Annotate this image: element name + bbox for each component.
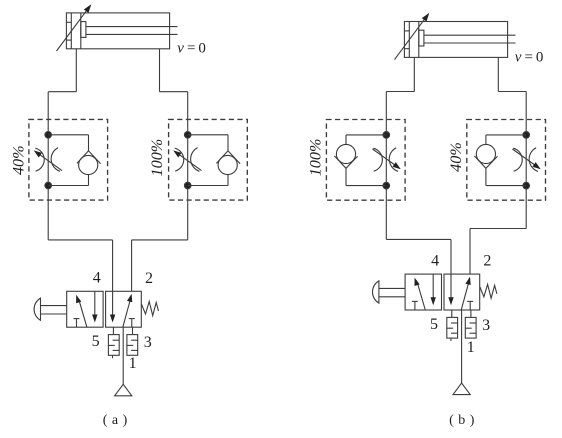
pressure source triangle (a) [115, 384, 132, 396]
wire: bottom jog to valve port 4 (a) [48, 239, 112, 241]
check valve of FCV-B2: seat [474, 156, 497, 168]
cylinder CYL-B rod block [419, 30, 424, 46]
valve V-B: left position square [405, 274, 441, 310]
wire: down into valve port 2 (a) [131, 240, 133, 291]
check valve of FCV-B1: inlet stub [345, 135, 347, 145]
check valve of FCV-A1: inlet stub [88, 135, 90, 151]
wire: branch top of FCV-B1 [346, 134, 386, 136]
valve V-B: right position square [444, 274, 480, 310]
check valve of FCV-A2: outlet stub [227, 175, 229, 186]
valve V-B: push-button stem upper [379, 287, 405, 289]
wire: branch top of FCV-A1 [48, 134, 88, 136]
wire: branch top of FCV-A2 [188, 134, 228, 136]
svg-text:5: 5 [430, 316, 438, 333]
valve V-B left square: blocked port T [412, 300, 418, 302]
throttle FCV-A2: adjustment arrow [178, 154, 202, 171]
valve V-B: return spring [480, 284, 497, 298]
flow control valve FCV-A2 dashed enclosure [169, 119, 248, 200]
valve V-A left square: diagonal flow arrow [79, 301, 87, 327]
node: junction dot bottom of FCV-A1 [45, 182, 52, 189]
node: junction dot top of FCV-A1 [45, 132, 52, 139]
svg-text:v = 0: v = 0 [177, 41, 206, 57]
valve V-A left square: blocked port T [74, 318, 80, 320]
svg-text:2: 2 [483, 253, 491, 270]
throttle FCV-B1: right arc [389, 148, 398, 172]
cylinder CYL-B cushion sleeve line [408, 22, 410, 58]
check valve of FCV-B2: ball [476, 144, 495, 163]
throttle FCV-A2: right arc [191, 148, 200, 172]
wire: cylinder B right port down [497, 57, 499, 91]
valve V-A: left position square [67, 291, 103, 327]
wire: supply line port 1 (b) [461, 310, 463, 383]
cylinder CYL-B body [404, 22, 507, 58]
flow control valve FCV-A1 dashed enclosure [29, 119, 108, 200]
wire: main line through 40% controller (b) [525, 92, 527, 229]
cylinder CYL-A adjustable-cushion arrow [57, 10, 88, 51]
node: junction dot bottom of FCV-A2 [184, 182, 191, 189]
valve V-A: silencer body at port 5 [108, 335, 119, 356]
valve V-A: return spring [141, 302, 158, 316]
svg-text:100%: 100% [148, 139, 166, 177]
wire: bottom jog to valve port 4 (b) [386, 238, 451, 240]
cylinder CYL-B cushion tick upper [404, 30, 409, 32]
throttle FCV-B2: left arc [513, 148, 522, 171]
valve V-B right square: blocked port T (port3) [467, 300, 473, 302]
wire: main line through 100% controller (a) [187, 92, 189, 240]
valve V-B: silencer body at port 3 [465, 317, 476, 338]
cylinder CYL-A cushion tick lower [66, 39, 71, 41]
valve V-B: silencer body at port 5 [447, 317, 458, 338]
wire: branch bottom of FCV-B1 [346, 185, 386, 187]
wire: cylinder A right port down [159, 49, 161, 92]
node: junction dot top of FCV-A2 [184, 132, 191, 139]
valve V-A: push-button stem upper [41, 305, 67, 307]
check valve of FCV-B2: outlet stub [485, 168, 487, 185]
svg-text:5: 5 [92, 333, 100, 350]
node: junction dot top of FCV-B2 [523, 132, 530, 139]
wire: cylinder A left jog [48, 91, 76, 93]
valve V-A: push-button stem lower [41, 313, 67, 315]
check valve of FCV-A1: outlet stub [88, 175, 90, 186]
valve V-A right square: blocked port T (port3) [129, 318, 135, 320]
check valve of FCV-A2: inlet stub [227, 135, 229, 151]
svg-text:1: 1 [467, 339, 475, 356]
check valve of FCV-A1: seat [77, 151, 101, 164]
valve V-A right square: diagonal flow arrow (port1 to port2) [123, 301, 130, 328]
throttle FCV-B1: left arc [373, 148, 382, 171]
svg-text:( a ): ( a ) [103, 413, 128, 428]
valve V-A: silencer baffle lines at port 5 [113, 339, 120, 341]
node: junction dot top of FCV-B1 [383, 132, 390, 139]
valve V-A: silencer drain stub at port 5 [112, 355, 114, 358]
valve V-A: silencer baffle lines at port 3 [131, 339, 138, 341]
check valve of FCV-B1: ball [336, 144, 355, 163]
cylinder CYL-B piston [418, 22, 420, 58]
cylinder CYL-A rod block [81, 22, 86, 38]
wire: cylinder B left jog [386, 91, 414, 93]
check valve of FCV-A2: ball [218, 155, 237, 174]
flow control valve FCV-B2 dashed enclosure [467, 120, 546, 201]
valve V-A: push-button actuator head [34, 298, 40, 320]
wire: cylinder B left port down [413, 57, 415, 91]
valve V-A right square: vertical flow arrow (port4 to port5) [112, 291, 114, 317]
svg-text:3: 3 [482, 317, 490, 334]
svg-text:3: 3 [144, 334, 152, 351]
wire: supply line port 1 (a) [122, 327, 124, 384]
cylinder CYL-A cushion sleeve line [70, 13, 72, 49]
wire: branch bottom of FCV-B2 [486, 185, 526, 187]
check valve of FCV-B2: inlet stub [485, 135, 487, 145]
svg-text:40%: 40% [447, 142, 465, 172]
cylinder CYL-A body [66, 13, 169, 49]
wire: main line through 40% controller (a) [47, 92, 49, 240]
valve V-B: push-button actuator head [372, 281, 378, 303]
wire: down into valve port 4 (a) [112, 240, 114, 291]
cylinder CYL-A piston rod lower line [86, 33, 178, 35]
valve V-A: silencer stem at port 5 [112, 327, 114, 334]
node: junction dot bottom of FCV-B1 [383, 182, 390, 189]
wire: branch bottom of FCV-A2 [188, 185, 228, 187]
check valve of FCV-A1: ball [79, 155, 98, 174]
valve V-A: silencer body at port 3 [127, 335, 138, 356]
wire: cylinder B right jog [498, 91, 526, 93]
wire: down into valve port 2 (b) [469, 229, 471, 275]
throttle FCV-A1: left arc [35, 148, 44, 171]
svg-text:100%: 100% [306, 139, 324, 177]
wire: branch bottom of FCV-A1 [48, 185, 88, 187]
check valve of FCV-A2: seat [216, 151, 240, 164]
check valve of FCV-B1: outlet stub [345, 168, 347, 185]
valve V-B: silencer stem at port 5 [451, 310, 453, 317]
wire: down into valve port 4 (b) [450, 239, 452, 274]
valve V-B: silencer drain stub at port 5 [450, 338, 452, 341]
wire: cylinder A left port down [75, 49, 77, 92]
cylinder CYL-B cushion tick lower [404, 48, 409, 50]
throttle FCV-B1: adjustment arrow [373, 149, 397, 166]
svg-text:2: 2 [145, 270, 153, 287]
valve V-B right square: diagonal flow arrow (port1 to port2) [461, 283, 468, 310]
valve V-B: silencer stem at port 3 [470, 310, 472, 317]
cylinder CYL-A piston [80, 13, 82, 49]
cylinder CYL-A piston rod upper line [86, 26, 178, 28]
cylinder CYL-A cushion tick upper [66, 21, 71, 23]
throttle FCV-A2: left arc [175, 148, 184, 171]
pressure source triangle (b) [453, 383, 470, 395]
wire: main line through 100% controller (b) [385, 92, 387, 240]
svg-text:( b ): ( b ) [449, 413, 475, 428]
valve V-A left square: vertical flow arrow [94, 291, 96, 317]
valve V-B: push-button stem lower [379, 296, 405, 298]
throttle FCV-A1: adjustment arrow [38, 154, 62, 171]
svg-text:1: 1 [129, 355, 137, 372]
cylinder CYL-B piston rod upper line [424, 34, 516, 36]
cylinder CYL-B piston rod lower line [424, 42, 516, 44]
check valve of FCV-B1: seat [334, 156, 357, 168]
wire: branch top of FCV-B2 [486, 134, 526, 136]
valve V-B left square: vertical flow arrow [432, 274, 434, 300]
valve V-B: silencer baffle lines at port 5 [451, 322, 458, 324]
throttle FCV-B2: adjustment arrow [512, 149, 536, 166]
svg-text:4: 4 [431, 252, 439, 269]
valve V-A: right position square [106, 291, 142, 327]
wire: bottom jog to valve port 2 (b) [470, 228, 526, 230]
node: junction dot bottom of FCV-B2 [523, 182, 530, 189]
cylinder CYL-B adjustable-cushion arrow [395, 18, 426, 59]
valve V-A: silencer stem at port 3 [132, 327, 134, 334]
valve V-B: silencer baffle lines at port 3 [470, 322, 477, 324]
svg-text:4: 4 [93, 270, 101, 287]
flow control valve FCV-B1 dashed enclosure [326, 120, 405, 201]
wire: bottom jog to valve port 2 (a) [132, 239, 188, 241]
svg-text:v = 0: v = 0 [515, 49, 544, 65]
valve V-B left square: diagonal flow arrow [418, 284, 426, 310]
throttle FCV-A1: right arc [51, 148, 60, 172]
valve V-B right square: vertical flow arrow (port4 to port5) [450, 274, 452, 300]
svg-text:40%: 40% [9, 145, 27, 175]
throttle FCV-B2: right arc [529, 148, 538, 172]
wire: cylinder A right jog [160, 91, 188, 93]
